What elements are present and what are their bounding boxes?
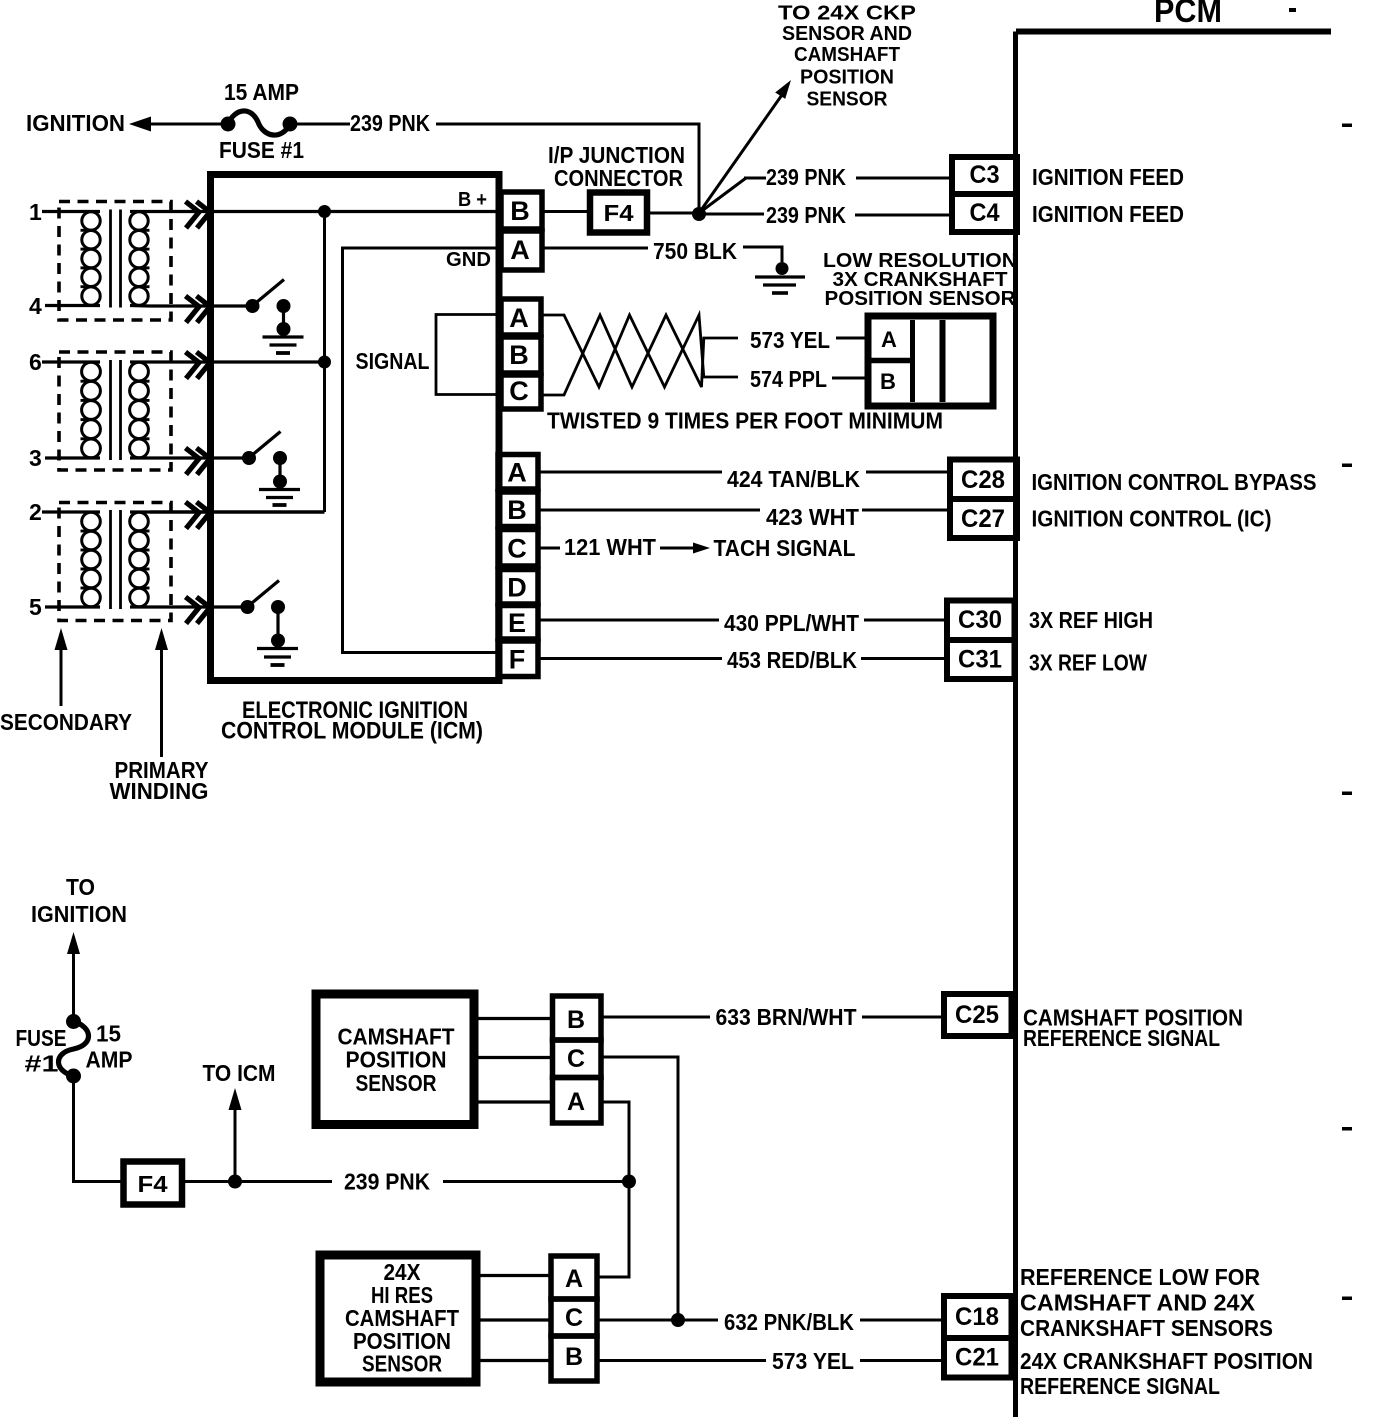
svg-text:C4: C4 xyxy=(970,199,1000,227)
svg-text:PCM: PCM xyxy=(1154,0,1222,29)
svg-text:633 BRN/WHT: 633 BRN/WHT xyxy=(716,1004,857,1030)
svg-text:IGNITION: IGNITION xyxy=(31,901,127,927)
svg-text:C27: C27 xyxy=(961,505,1005,533)
svg-text:REFERENCE LOW FOR: REFERENCE LOW FOR xyxy=(1020,1264,1260,1290)
svg-text:IGNITION: IGNITION xyxy=(26,110,125,136)
svg-text:E: E xyxy=(508,608,526,638)
svg-text:POSITION: POSITION xyxy=(346,1047,447,1073)
svg-text:SENSOR: SENSOR xyxy=(356,1070,437,1096)
svg-text:6: 6 xyxy=(29,349,42,375)
svg-text:453 RED/BLK: 453 RED/BLK xyxy=(727,647,857,673)
svg-text:REFERENCE SIGNAL: REFERENCE SIGNAL xyxy=(1023,1025,1220,1051)
svg-text:GND: GND xyxy=(446,249,491,271)
svg-text:TACH SIGNAL: TACH SIGNAL xyxy=(714,535,856,561)
svg-text:C: C xyxy=(507,533,527,563)
svg-text:574 PPL: 574 PPL xyxy=(750,366,827,392)
svg-text:239 PNK: 239 PNK xyxy=(766,202,846,228)
svg-text:239 PNK: 239 PNK xyxy=(344,1169,430,1195)
svg-text:CAMSHAFT: CAMSHAFT xyxy=(794,44,900,66)
svg-text:1: 1 xyxy=(29,199,42,225)
svg-text:REFERENCE SIGNAL: REFERENCE SIGNAL xyxy=(1020,1373,1220,1399)
svg-text:TO ICM: TO ICM xyxy=(203,1060,276,1086)
svg-text:TO: TO xyxy=(66,874,95,900)
svg-text:IGNITION FEED: IGNITION FEED xyxy=(1032,164,1184,190)
svg-text:C3: C3 xyxy=(970,161,1000,189)
svg-text:15: 15 xyxy=(96,1021,121,1047)
svg-text:C31: C31 xyxy=(958,646,1002,674)
svg-text:SENSOR AND: SENSOR AND xyxy=(782,23,912,45)
svg-text:B: B xyxy=(565,1343,583,1371)
svg-text:FUSE #1: FUSE #1 xyxy=(219,137,304,163)
svg-text:CAMSHAFT AND 24X: CAMSHAFT AND 24X xyxy=(1020,1290,1256,1316)
svg-text:750 BLK: 750 BLK xyxy=(653,238,737,264)
svg-text:430 PPL/WHT: 430 PPL/WHT xyxy=(724,610,859,636)
svg-text:B: B xyxy=(880,369,896,394)
svg-text:CRANKSHAFT SENSORS: CRANKSHAFT SENSORS xyxy=(1020,1315,1273,1341)
svg-text:IGNITION CONTROL (IC): IGNITION CONTROL (IC) xyxy=(1032,506,1272,532)
svg-text:239 PNK: 239 PNK xyxy=(350,110,430,136)
svg-text:FUSE: FUSE xyxy=(16,1025,67,1051)
svg-text:C: C xyxy=(509,376,529,406)
svg-text:4: 4 xyxy=(29,293,42,319)
svg-text:632 PNK/BLK: 632 PNK/BLK xyxy=(724,1309,854,1335)
svg-text:C28: C28 xyxy=(961,466,1005,494)
svg-text:B: B xyxy=(510,196,530,226)
svg-text:AMP: AMP xyxy=(86,1047,133,1073)
svg-text:2: 2 xyxy=(29,499,42,525)
svg-text:B +: B + xyxy=(458,189,487,211)
svg-text:423 WHT: 423 WHT xyxy=(766,504,859,530)
svg-text:C21: C21 xyxy=(955,1344,999,1372)
svg-text:121 WHT: 121 WHT xyxy=(564,534,656,560)
svg-text:POSITION SENSOR: POSITION SENSOR xyxy=(825,287,1016,310)
svg-text:A: A xyxy=(565,1265,583,1293)
svg-text:A: A xyxy=(509,303,529,333)
svg-text:B: B xyxy=(507,495,527,525)
svg-text:24X CRANKSHAFT POSITION: 24X CRANKSHAFT POSITION xyxy=(1020,1348,1313,1374)
svg-text:573 YEL: 573 YEL xyxy=(750,327,830,353)
svg-text:C18: C18 xyxy=(955,1303,999,1331)
svg-text:424 TAN/BLK: 424 TAN/BLK xyxy=(727,466,860,492)
svg-text:A: A xyxy=(507,457,527,487)
svg-text:WINDING: WINDING xyxy=(110,778,209,804)
svg-text:SENSOR: SENSOR xyxy=(362,1351,442,1377)
svg-text:SIGNAL: SIGNAL xyxy=(356,348,430,374)
svg-text:C30: C30 xyxy=(958,606,1002,634)
svg-text:3: 3 xyxy=(29,445,42,471)
svg-text:CONNECTOR: CONNECTOR xyxy=(554,165,683,191)
svg-text:F4: F4 xyxy=(138,1171,168,1197)
svg-text:TWISTED 9 TIMES PER FOOT MINIM: TWISTED 9 TIMES PER FOOT MINIMUM xyxy=(547,408,943,434)
svg-text:A: A xyxy=(567,1088,585,1116)
svg-text:A: A xyxy=(881,327,897,352)
svg-text:IGNITION CONTROL BYPASS: IGNITION CONTROL BYPASS xyxy=(1032,469,1317,495)
svg-text:5: 5 xyxy=(29,594,42,620)
svg-text:POSITION: POSITION xyxy=(800,67,894,89)
svg-text:F4: F4 xyxy=(604,200,634,226)
svg-text:SECONDARY: SECONDARY xyxy=(0,709,132,735)
svg-text:239 PNK: 239 PNK xyxy=(766,164,846,190)
svg-text:3X REF LOW: 3X REF LOW xyxy=(1029,650,1147,676)
svg-text:D: D xyxy=(507,572,527,602)
svg-text:B: B xyxy=(509,340,529,370)
svg-text:C: C xyxy=(565,1304,583,1332)
svg-text:CONTROL MODULE (ICM): CONTROL MODULE (ICM) xyxy=(221,718,483,745)
svg-text:A: A xyxy=(510,235,530,265)
svg-text:F: F xyxy=(509,644,526,674)
svg-text:C25: C25 xyxy=(955,1001,999,1029)
svg-text:B: B xyxy=(567,1006,585,1034)
svg-text:#1: #1 xyxy=(25,1051,59,1077)
svg-text:573 YEL: 573 YEL xyxy=(772,1348,854,1374)
svg-text:15 AMP: 15 AMP xyxy=(224,79,299,105)
svg-text:TO 24X CKP: TO 24X CKP xyxy=(778,3,916,25)
svg-text:C: C xyxy=(567,1045,585,1073)
svg-text:3X REF HIGH: 3X REF HIGH xyxy=(1029,607,1153,633)
svg-text:IGNITION FEED: IGNITION FEED xyxy=(1032,201,1184,227)
svg-text:SENSOR: SENSOR xyxy=(807,89,889,111)
